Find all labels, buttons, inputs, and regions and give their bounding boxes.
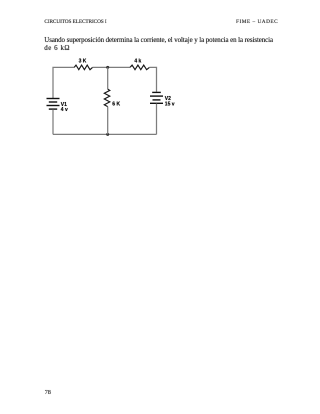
header right: institution [236, 20, 278, 25]
problem statement paragraph [44, 37, 273, 53]
page number [45, 390, 51, 396]
junction node A (top middle) [106, 66, 109, 69]
svg-text:3 K: 3 K [79, 59, 87, 65]
svg-text:4 v: 4 v [61, 107, 68, 113]
resistor R3 6K [104, 89, 110, 107]
label R3 value 6 K [112, 102, 120, 108]
label V1 [61, 102, 67, 108]
svg-text:6 K: 6 K [112, 102, 120, 108]
battery V1 (4 v) [47, 99, 60, 110]
wire middle-bottom (R3 bottom to node B) [107, 107, 109, 135]
resistor R1 3K [74, 65, 92, 70]
wire top-right (R2 right to V2 top) [149, 67, 156, 91]
junction node B (bottom middle) [106, 133, 109, 136]
wire top-left (V1 top to R1 left) [53, 67, 74, 98]
wire bottom rail [53, 133, 157, 135]
label V2 value 15 v [165, 101, 175, 107]
label R2 value 4 k [134, 59, 141, 65]
wire middle-top (node A to R3 top) [107, 67, 109, 89]
wire right-bottom (V2 bottom to bottom rail) [156, 104, 158, 135]
battery V2 (15 v) [150, 92, 163, 103]
header left: course title [44, 20, 106, 25]
svg-text:15 v: 15 v [165, 101, 175, 107]
label R1 value 3 K [79, 59, 87, 65]
wire left-bottom (V1 bottom to bottom rail) [52, 109, 54, 134]
svg-text:4 k: 4 k [134, 59, 141, 65]
label V1 value 4 v [61, 107, 68, 113]
resistor R2 4k [130, 65, 149, 70]
wire top-middle (R1 right to R2 left) [93, 66, 131, 68]
label V2 [165, 96, 171, 102]
